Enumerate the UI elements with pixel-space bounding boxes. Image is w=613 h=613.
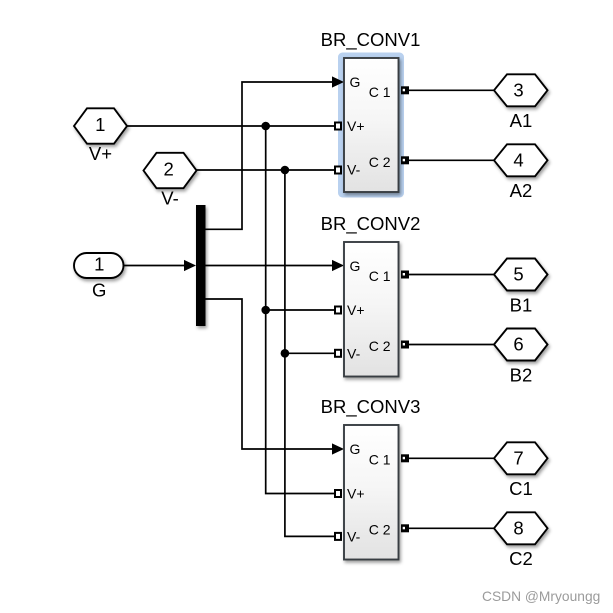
svg-text:V-: V-: [161, 187, 178, 208]
svg-text:BR_CONV1: BR_CONV1: [321, 29, 421, 51]
inport 1 V+ hexagon: [74, 108, 127, 164]
inport 2 V- hexagon: [144, 153, 197, 209]
svg-text:1: 1: [95, 114, 105, 135]
svg-text:4: 4: [513, 150, 523, 171]
inport 1 G stadium: [74, 253, 124, 301]
pin C1 output square BR_CONV1: [401, 86, 409, 94]
wire V- rail horizontal from Inport 2 to BR_CONV1 V-: [197, 169, 336, 171]
svg-text:G: G: [92, 280, 106, 301]
pin C2 output square BR_CONV1: [401, 156, 409, 164]
block BR_CONV1 U1: [321, 29, 421, 192]
wire mux bar top output to BR_CONV1 G: [206, 76, 345, 229]
node junction V+ at BR_CONV1 row: [261, 122, 270, 131]
wire V- branch to BR_CONV2 V-: [285, 352, 335, 354]
svg-text:V+: V+: [347, 118, 365, 134]
outport 7 C1 hexagon: [494, 442, 548, 499]
outport 5 B1 hexagon: [494, 259, 548, 316]
svg-text:C 2: C 2: [369, 522, 391, 538]
svg-text:A1: A1: [510, 110, 533, 131]
svg-text:BR_CONV2: BR_CONV2: [321, 213, 421, 235]
svg-text:7: 7: [513, 448, 523, 469]
mux bar (gate signal distribution): [196, 205, 206, 326]
pin C1 output square BR_CONV3: [401, 454, 409, 462]
svg-text:G: G: [350, 74, 361, 90]
pin V- input square BR_CONV2: [335, 350, 341, 357]
svg-text:C1: C1: [509, 478, 533, 499]
svg-text:C 2: C 2: [369, 338, 391, 354]
pin C1 output square BR_CONV2: [401, 271, 409, 279]
wire V+ branch to BR_CONV2 V+: [266, 309, 335, 311]
svg-text:C 1: C 1: [369, 452, 391, 468]
svg-text:V-: V-: [347, 162, 361, 178]
wire BR_CONV1 C2 to Outport 4: [409, 159, 495, 161]
watermark: [482, 589, 600, 604]
svg-text:C 1: C 1: [369, 268, 391, 284]
pin C2 output square BR_CONV3: [401, 524, 409, 532]
svg-text:8: 8: [513, 518, 523, 539]
block BR_CONV3 U3: [321, 396, 421, 560]
svg-text:2: 2: [164, 158, 174, 179]
pin C2 output square BR_CONV2: [401, 341, 409, 349]
pin V- input square BR_CONV1: [335, 167, 341, 174]
svg-text:B2: B2: [510, 364, 533, 385]
node junction V- at BR_CONV1 row: [281, 166, 290, 175]
pin V+ input square BR_CONV1: [335, 123, 341, 130]
svg-text:A2: A2: [510, 180, 533, 201]
svg-text:1: 1: [94, 254, 104, 275]
wire BR_CONV2 C2 to Outport 6: [409, 344, 495, 346]
svg-text:V+: V+: [347, 302, 365, 318]
svg-text:B1: B1: [510, 294, 533, 315]
node junction V- at BR_CONV2 row: [281, 349, 290, 358]
pin V+ input square BR_CONV2: [335, 307, 341, 314]
outport 3 A1 hexagon: [494, 74, 548, 131]
selection highlight around BR_CONV1: [338, 53, 404, 198]
wire mux bar middle output to BR_CONV2 G: [206, 260, 345, 271]
svg-text:6: 6: [513, 334, 523, 355]
svg-text:C 1: C 1: [369, 84, 391, 100]
svg-text:C2: C2: [509, 548, 533, 569]
svg-text:C 2: C 2: [369, 154, 391, 170]
wire BR_CONV3 C1 to Outport 7: [409, 457, 495, 459]
svg-text:3: 3: [513, 80, 523, 101]
outport 8 C2 hexagon: [494, 512, 548, 569]
svg-text:G: G: [350, 258, 361, 274]
wire BR_CONV3 C2 to Outport 8: [409, 527, 495, 529]
pin V+ input square BR_CONV3: [335, 490, 341, 497]
block BR_CONV2 U2: [321, 213, 421, 377]
svg-text:5: 5: [513, 264, 523, 285]
outport 6 B2 hexagon: [494, 329, 548, 386]
wire V+ rail vertical down to BR_CONV3 V+: [266, 126, 335, 494]
wire mux bar bottom output to BR_CONV3 G: [206, 299, 345, 455]
svg-text:V+: V+: [347, 486, 365, 502]
wire BR_CONV2 C1 to Outport 5: [409, 274, 495, 276]
node junction V+ at BR_CONV2 row: [261, 306, 270, 315]
svg-text:BR_CONV3: BR_CONV3: [321, 396, 421, 418]
wire BR_CONV1 C1 to Outport 3: [409, 89, 495, 91]
wire G from Inport to mux bar: [123, 260, 196, 271]
svg-text:V-: V-: [347, 346, 361, 362]
wire V- rail vertical down to BR_CONV3 V-: [285, 170, 335, 536]
wire V+ rail horizontal from Inport 1 to BR_CONV1 V+: [127, 125, 335, 127]
pin V- input square BR_CONV3: [335, 533, 341, 540]
svg-text:V+: V+: [89, 143, 112, 164]
outport 4 A2 hexagon: [494, 144, 548, 201]
svg-text:G: G: [350, 441, 361, 457]
svg-text:V-: V-: [347, 529, 361, 545]
svg-text:CSDN @Mryoungg: CSDN @Mryoungg: [482, 589, 600, 604]
